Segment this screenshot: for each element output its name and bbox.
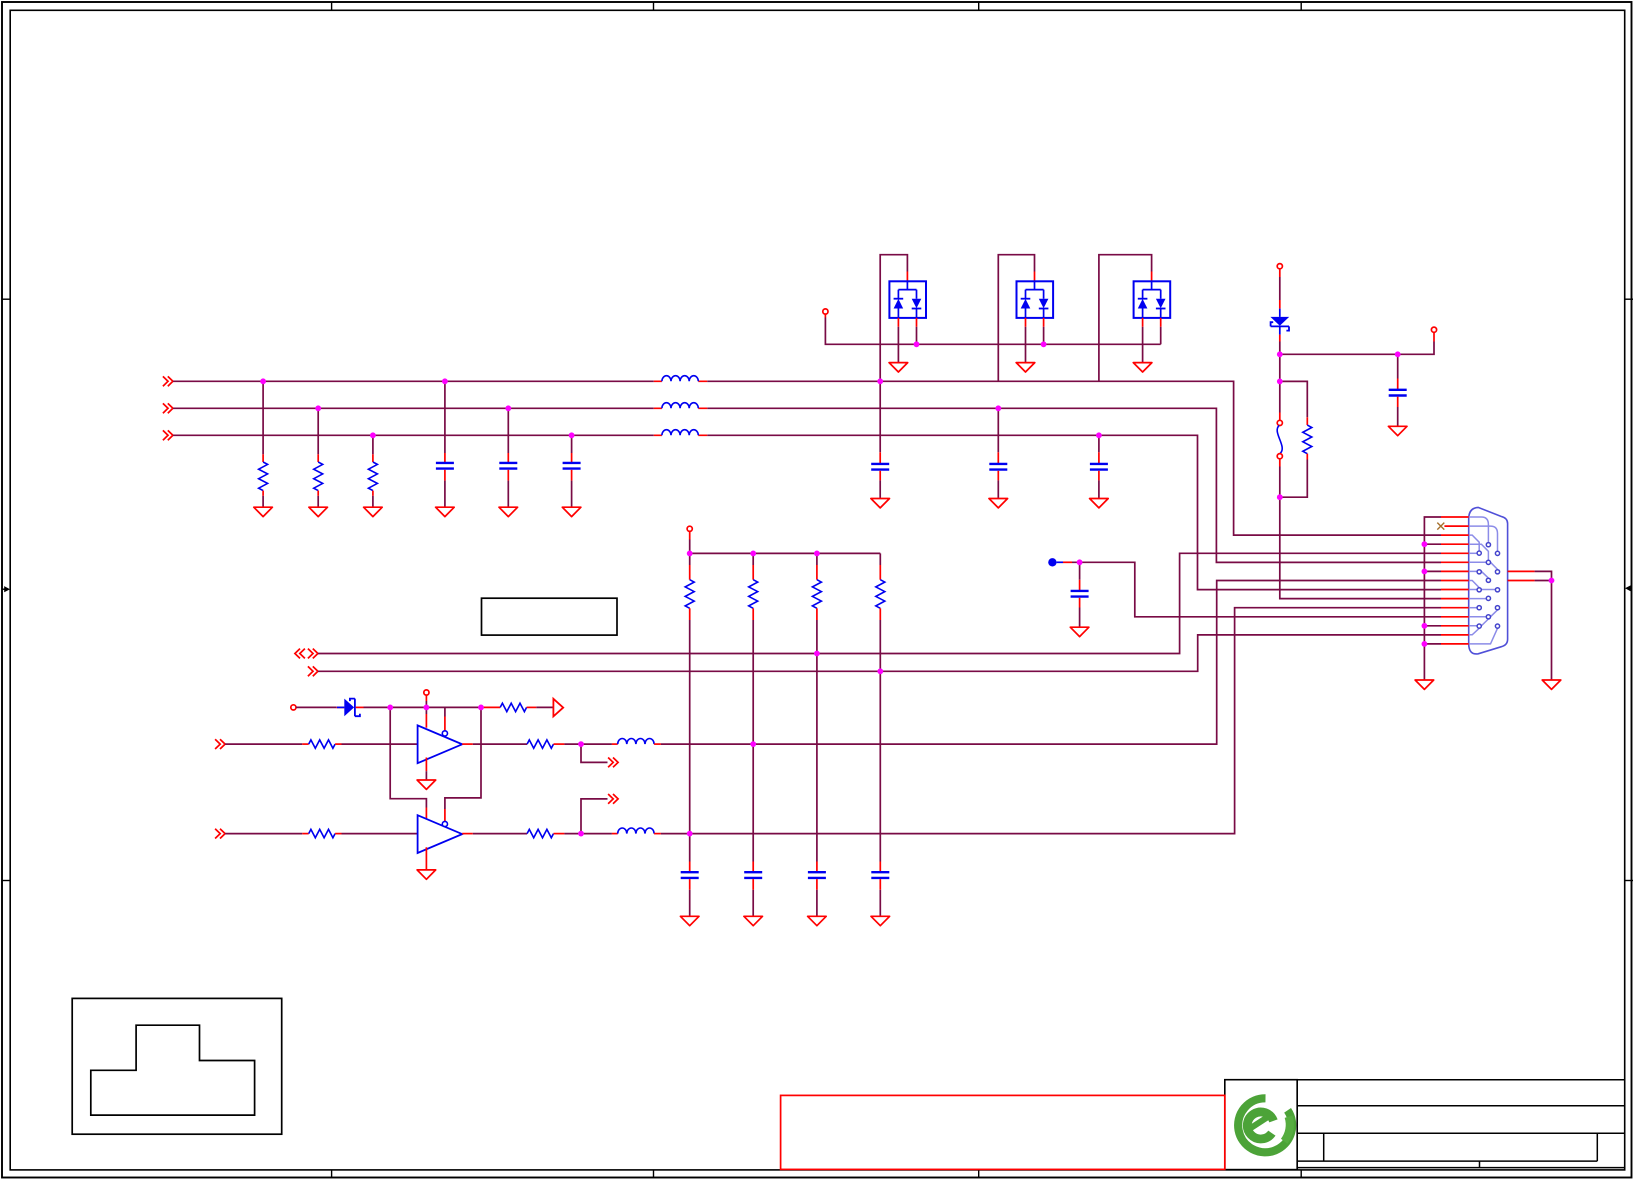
pin stub blue dot node xyxy=(1063,561,1072,563)
pin stub resistor R12 right xyxy=(335,833,341,835)
wire bus line 3 right xyxy=(707,435,1441,589)
wire TVS D2 left leg to ground xyxy=(1025,318,1027,363)
capacitor C13 xyxy=(871,862,889,917)
capacitor C11 xyxy=(744,862,762,917)
wire buffer U2 ground pin xyxy=(425,847,427,869)
wire supply to buffer U2 enable xyxy=(445,707,481,821)
ground under shell xyxy=(1542,680,1561,689)
wire R6 leg down xyxy=(752,620,754,862)
pin stub inductor L4 right xyxy=(654,743,661,745)
wire bus line 1 right xyxy=(707,381,1441,535)
resistor R7 xyxy=(812,553,821,620)
wire buffer U1 power stub xyxy=(425,707,427,727)
wire node B to connector pin 14 xyxy=(318,635,1441,671)
wire R5 leg down xyxy=(689,620,691,862)
wire shield node down xyxy=(1279,354,1281,381)
ground under C10 xyxy=(680,916,699,925)
zener diode D5 xyxy=(337,699,360,717)
ground under C11 xyxy=(744,916,763,925)
pin stub zener D5 left xyxy=(336,706,344,708)
capacitor C5 to ground on line 2 xyxy=(989,408,1007,498)
border tick top 2 xyxy=(653,2,655,10)
pin stub buffer U2 output xyxy=(462,833,473,835)
capacitor C4 to ground on line 1 xyxy=(871,381,889,498)
pin stub resistor R12 left xyxy=(302,833,308,835)
pin stubs inductor L3 xyxy=(654,434,708,436)
zener diode D4 xyxy=(1270,309,1289,335)
pin stub zener D5 right xyxy=(356,706,364,708)
ground under collector xyxy=(1415,680,1434,689)
resistor R6 xyxy=(749,553,758,620)
junction dots bias rail xyxy=(687,551,820,557)
wire supply rail middle xyxy=(364,706,482,708)
output port triangle xyxy=(553,699,563,717)
border tick left 2 xyxy=(2,880,10,882)
port chevron node B xyxy=(308,666,318,676)
input port chevron U1 xyxy=(215,739,225,749)
junction dots ground collector xyxy=(1422,541,1428,647)
pin stub terminal TP3 xyxy=(1433,332,1435,341)
bus tap terminal blue dot xyxy=(1048,558,1063,566)
wire TP2 to zener D4 xyxy=(1279,277,1281,300)
ground under R2 xyxy=(309,507,328,516)
ground under R1 xyxy=(254,507,273,516)
wire U1 line to connector pin 8 xyxy=(661,581,1441,745)
wire U1 tap xyxy=(581,744,608,762)
ground under C13 xyxy=(871,916,890,925)
pin stub inductor L5 right xyxy=(654,833,661,835)
resistor R2 to ground on line 2 xyxy=(314,408,323,507)
wire TVS common rail xyxy=(825,318,1160,345)
wire TVS D3 left leg to ground xyxy=(1142,318,1144,363)
pin stub inductor L4 left xyxy=(612,743,618,745)
wire R8 leg down xyxy=(879,620,881,862)
border tick right 1 xyxy=(1625,298,1633,300)
no-connect X on pin 2 xyxy=(1437,523,1444,530)
capacitor C10 xyxy=(681,862,699,917)
capacitor C2 to ground on line 2 xyxy=(499,408,517,507)
pin stubs inductor L1 xyxy=(654,380,708,382)
capacitor C1 to ground on line 1 xyxy=(436,381,454,507)
wire bus line 3 left xyxy=(173,434,654,436)
pin stub terminal TP6 xyxy=(425,695,427,701)
pin stub buffer U1 output xyxy=(462,743,473,745)
border tick top 4 xyxy=(1300,2,1302,10)
sheet thumbnail outer box xyxy=(72,998,282,1134)
sheet thumbnail step polygon xyxy=(91,1025,255,1115)
title block logo cell xyxy=(1225,1080,1297,1170)
wire TVS D2 right leg to rail xyxy=(1043,318,1045,344)
wire U2 input xyxy=(225,833,302,835)
pin stub resistor R9 right xyxy=(527,706,537,708)
wire supply rail left xyxy=(296,706,336,708)
pin stub TVS D3 top xyxy=(1151,272,1153,282)
wire blue dot node to connector pin 12 xyxy=(1072,562,1441,617)
wire shell pins to ground xyxy=(1535,571,1552,680)
pin stub zener D4 top xyxy=(1279,300,1281,309)
port chevron U1 tap xyxy=(608,758,618,768)
inductor L3 xyxy=(662,430,698,436)
inductor L2 xyxy=(662,403,698,409)
border tick top 3 xyxy=(978,2,980,10)
inductor L5 xyxy=(618,828,654,834)
wire U2 line to connector pin 11 xyxy=(661,608,1441,834)
terminal TP6 above buffer U1 xyxy=(424,690,429,695)
TVS diode array D2 xyxy=(1017,281,1054,318)
input port chevron line 2 xyxy=(163,403,173,413)
wire TVS D2 top loop xyxy=(998,255,1034,382)
wire TVS D3 top loop xyxy=(1099,255,1152,382)
wire bus line 2 left xyxy=(173,407,654,409)
border tick bottom 3 xyxy=(978,1170,980,1178)
port chevron U2 tap xyxy=(608,794,618,804)
border tick left 1 xyxy=(2,298,10,300)
capacitor C9 node to ground xyxy=(1071,562,1089,627)
junction dot node A at R7 xyxy=(814,651,820,657)
wire U1 output to R11 xyxy=(473,743,527,745)
title block row lines xyxy=(1297,1080,1625,1170)
TVS diode array D3 xyxy=(1134,281,1171,318)
junction dot shell xyxy=(1549,578,1555,584)
connector J1 body xyxy=(1469,507,1508,654)
resistor R1 to ground on line 1 xyxy=(259,381,268,507)
capacitor C12 xyxy=(808,862,826,917)
wire U2 output to R13 xyxy=(473,833,527,835)
resistor R12 xyxy=(309,829,335,837)
wire R11 to inductor L4 xyxy=(564,743,612,745)
input port chevron line 3 xyxy=(163,430,173,440)
junction dot node B at R8 xyxy=(877,668,883,674)
pin stub TVS D2 top xyxy=(1034,272,1036,282)
pin stub TVS D1 top xyxy=(906,272,908,282)
ground under C6 xyxy=(1090,499,1109,508)
ground under TVS D2 xyxy=(1016,363,1035,372)
junction dots TVS rail xyxy=(914,341,1047,347)
junction dots supply rail xyxy=(387,705,484,711)
junction dots left bus section xyxy=(260,378,574,438)
pin stub zener D4 bottom xyxy=(1279,335,1281,342)
border tick top 1 xyxy=(331,2,333,10)
buffer U2 xyxy=(418,815,463,853)
pin stub resistor R10 right xyxy=(335,743,341,745)
ground under C5 xyxy=(989,499,1008,508)
resistor R10 xyxy=(309,740,335,748)
pin stub resistor R13 right xyxy=(554,833,565,835)
wire zener D4 to node xyxy=(1279,342,1281,355)
wire bus line 1 left xyxy=(173,380,654,382)
terminal TP3 xyxy=(1431,327,1436,332)
wire shield node horizontal xyxy=(1280,342,1434,355)
pin stubs inductor L2 xyxy=(654,407,708,409)
pin stub resistor R10 left xyxy=(302,743,308,745)
pin stub resistor R9 left xyxy=(481,706,500,708)
border centre arrow right xyxy=(1625,585,1632,591)
wire TP6 down xyxy=(425,701,427,707)
wire shield branch to connector pin 10 xyxy=(1280,497,1441,598)
resistor R13 xyxy=(527,829,553,837)
border tick bottom 2 xyxy=(653,1170,655,1178)
junction dots U2 output xyxy=(578,831,693,837)
ground under C3 xyxy=(562,507,581,516)
border centre arrow left xyxy=(2,586,10,592)
junction dots shield column xyxy=(1277,351,1401,500)
wire R12 to buffer U2 xyxy=(342,833,418,835)
pin stub resistor R11 right xyxy=(554,743,565,745)
junction dots U1 output xyxy=(578,741,756,747)
wire buffer U1 ground pin xyxy=(425,758,427,781)
ground under C9 xyxy=(1070,627,1089,636)
capacitor C3 to ground on line 3 xyxy=(563,435,581,507)
wire R9 to port xyxy=(536,706,553,708)
terminal TP4 bias rail xyxy=(687,526,692,531)
terminal TP5 supply xyxy=(291,705,296,710)
buffer U1 xyxy=(418,725,463,763)
wire TVS D1 top loop xyxy=(880,255,907,382)
ground under C2 xyxy=(499,507,518,516)
resistor R3 to ground on line 3 xyxy=(368,435,377,507)
port chevrons node A bidirectional xyxy=(295,649,318,659)
wire TVS D1 left leg to ground xyxy=(897,318,899,363)
resistor R5 xyxy=(685,553,694,620)
wire TVS D3 right leg to rail end xyxy=(1160,318,1162,344)
wire bias rail xyxy=(690,540,881,554)
ground under C1 xyxy=(436,507,455,516)
pin stub terminal TP1 xyxy=(824,314,826,317)
ground under C12 xyxy=(808,916,827,925)
wire U1 input xyxy=(225,743,302,745)
wire U2 tap xyxy=(581,799,608,834)
pin stub terminal TP2 xyxy=(1279,269,1281,277)
TVS diode array D1 xyxy=(889,281,926,318)
resistor R4 parallel branch xyxy=(1280,381,1312,497)
border tick bottom 4 xyxy=(1300,1170,1302,1178)
label box xyxy=(482,598,618,635)
resistor R8 xyxy=(876,553,885,620)
ground under C8 xyxy=(1388,426,1407,435)
inductor L4 xyxy=(618,739,654,745)
revision note red box xyxy=(781,1095,1225,1169)
resistor R9 xyxy=(500,703,526,711)
capacitor C6 to ground on line 3 xyxy=(1090,435,1108,498)
wire TVS D1 right leg to rail xyxy=(916,318,918,344)
wire supply to buffer U2 power xyxy=(390,707,426,819)
junction dot blue dot node xyxy=(1077,559,1083,565)
ground under buffer U2 xyxy=(417,870,436,879)
wire ground collector xyxy=(1424,517,1441,680)
wire R10 to buffer U1 xyxy=(342,743,418,745)
connector J1 contact circles xyxy=(1477,543,1500,629)
breaker F1 surge arrester xyxy=(1277,381,1282,497)
pin stubs connector shell xyxy=(1508,571,1535,580)
terminal TP1 TVS common xyxy=(823,309,828,314)
connector J1 inner traces xyxy=(1469,517,1498,644)
ground under R3 xyxy=(364,507,383,516)
pin stub inductor L5 left xyxy=(612,833,618,835)
input port chevron U2 xyxy=(215,829,225,839)
terminal TP2 shield top xyxy=(1277,264,1282,269)
wire buffer U1 enable stub xyxy=(444,707,446,730)
junction dots TVS columns on bus lines xyxy=(877,378,1102,438)
wire bus line 2 right xyxy=(707,408,1441,562)
wire R7 leg down xyxy=(816,620,818,862)
ground under TVS D1 xyxy=(889,363,908,372)
inductor L1 xyxy=(662,376,698,382)
pin stub terminal TP4 xyxy=(689,531,691,539)
wire node A to connector pin 5 xyxy=(318,553,1441,653)
resistor R11 xyxy=(527,740,553,748)
border tick bottom 1 xyxy=(331,1170,333,1178)
ground under C4 xyxy=(871,499,890,508)
border tick right 2 xyxy=(1625,880,1633,882)
wire R13 to inductor L5 xyxy=(564,833,612,835)
ground under TVS D3 xyxy=(1133,363,1152,372)
capacitor C8 shield to ground xyxy=(1389,354,1407,426)
connector J1 pin stubs xyxy=(1441,517,1469,644)
input port chevron line 1 xyxy=(163,376,173,386)
ground under buffer U1 xyxy=(417,780,436,789)
company logo xyxy=(1238,1098,1292,1152)
